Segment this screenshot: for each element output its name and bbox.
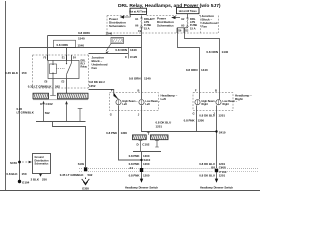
svg-text:C102: C102 [46,102,54,106]
wire DK BLU 1201 right low beam down [216,111,218,169]
headlamp right dashed box [193,93,233,111]
svg-text:592: 592 [88,173,93,177]
relay coil [50,64,57,74]
svg-text:15 A: 15 A [190,26,196,30]
wire coil ground LT GRN/BLK 592 [52,79,54,96]
wire PNK 1200 right headlamp G down [196,111,198,132]
svg-text:Fan: Fan [202,24,208,28]
wire label 0.8 PNK 1300 (lower) [129,154,150,158]
arrow to headlamp dimmer switch (right) [215,172,218,183]
ground distribution box [33,154,51,174]
headlamp right label [235,93,252,101]
svg-text:150: 150 [22,172,27,176]
wire label 0.8 DK BLU 1252 [89,80,105,88]
wire bus to ground G305 elbow [53,122,86,168]
junction block label (top right) [202,14,218,29]
svg-text:1540: 1540 [78,43,85,47]
splice S410 (left) [140,159,142,161]
callout tag box [106,38,124,54]
svg-text:G: G [193,112,195,116]
power distribution cross-ref note [109,17,126,28]
svg-text:G305: G305 [82,186,89,190]
svg-text:0.8 DK BLU: 0.8 DK BLU [199,113,215,117]
svg-text:0.8 PNK: 0.8 PNK [106,131,118,135]
wire relay pin E3 stub [66,79,68,94]
svg-text:S410: S410 [219,130,226,134]
C102 merge bar [133,151,161,153]
svg-text:2 BLK: 2 BLK [31,177,40,181]
high beam left bulb [114,93,138,111]
svg-text:250: 250 [42,177,47,181]
svg-text:0.8 DK BLU: 0.8 DK BLU [199,173,215,177]
connector C102 row [133,132,169,140]
svg-text:0.8 ORN: 0.8 ORN [115,48,127,52]
wire label 0.8 ORN 1340 with C120 [115,48,137,59]
wire vertical left BLK 150 [19,48,21,182]
wire label 0.8 ORN 1540 (upper) [78,31,113,41]
svg-text:Schematics: Schematics [35,162,50,165]
svg-text:0.8 ORN: 0.8 ORN [129,77,141,81]
wire DK BLU 1252 to left headlamp [89,90,114,93]
relay K1 DRL [48,60,79,78]
relay switch [66,61,68,64]
junction block label JB2 [92,55,108,70]
svg-text:1440: 1440 [222,50,229,54]
fuse F2 LPS 15A [177,14,197,33]
headlamp left label [161,93,178,101]
relay top pin ticks [48,55,72,61]
hot at all times box B2 [177,8,200,14]
svg-text:592: 592 [45,111,50,115]
svg-text:Schematics: Schematics [157,24,174,28]
inline connector blob on ground wire [84,167,87,171]
svg-text:Relay: Relay [81,66,88,69]
low beam left bulb [139,93,161,111]
fuse F1 DRL&FT LPS 15A [131,14,156,30]
svg-text:0.8 PNK: 0.8 PNK [129,173,141,177]
svg-text:Headlamp Dimmer Switch: Headlamp Dimmer Switch [200,186,233,190]
connector label 8 C102 [40,102,53,106]
svg-text:0.8 ORN: 0.8 ORN [206,50,218,54]
svg-text:1201: 1201 [219,173,226,177]
splice S150 [18,161,21,164]
wire segment H2 y=47.5 [20,47,142,49]
up arrow wire under right hatched box [65,101,68,122]
svg-text:C102: C102 [142,143,150,147]
svg-text:Left: Left [145,103,150,106]
svg-text:0.35 LT GRN/BLK: 0.35 LT GRN/BLK [60,173,85,177]
wire label 0.8 PNK 1200 [129,173,150,177]
wire label 0.8 DK BLU 1251 [156,120,172,128]
svg-text:1540: 1540 [78,36,85,40]
wire label 0.8 ORN 1440 (right inner) [186,68,208,72]
junction block underhood dashed box JB2 (relay) [33,55,89,88]
wire label 0.8 DK BLU 1201 (upper) [199,113,225,117]
svg-text:1200: 1200 [143,162,150,166]
svg-text:0.8 ORN: 0.8 ORN [57,43,68,47]
connector gap stub [147,132,150,135]
svg-text:B8: B8 [211,166,215,170]
low beam right bulb [216,93,238,111]
pigtail symbol right [78,109,83,122]
svg-text:Right: Right [223,103,230,106]
svg-text:0.8 PNK: 0.8 PNK [184,119,196,123]
arrow to power distribution 2 [172,16,180,18]
headlamp left pin labels [110,89,140,117]
connector label D C102 [137,143,150,147]
relay name label [81,60,88,69]
svg-text:1251: 1251 [156,124,163,128]
high beam right bulb [195,93,217,111]
wire label 0.8 ORN 1340 (to left low beam) [129,77,151,81]
connector row bottom line [33,99,88,101]
C102 pin bars [139,140,159,152]
wire segment H1 y=35.5 [48,35,142,37]
connector row hatched box (right) [58,93,89,99]
svg-text:G: G [110,112,112,116]
dotted rail right [221,168,258,171]
wire label 0.8 PNK 1200 (mid) [129,162,150,166]
svg-text:15 A: 15 A [144,26,150,30]
arrow to headlamp dimmer switch (left) [140,172,143,183]
svg-text:B: B [138,89,140,93]
svg-text:Right: Right [202,103,209,106]
wire label 0.8 BLK 150 [6,172,27,176]
svg-text:Hot at All Times: Hot at All Times [129,11,148,14]
wire vertical to relay coil pin [47,36,49,61]
ground symbol G305 [82,178,90,185]
svg-text:0.8 BLK: 0.8 BLK [6,172,18,176]
relay pin labels [44,56,77,83]
wire ORN 1540 fuse F1 to relay (H1 horizontal) [141,27,143,93]
wire label 0.8 DK BLU 1201 (bottom) [199,173,225,177]
svg-text:Left: Left [161,97,167,101]
connector row hatched box (left) [33,93,49,99]
ground bus line [36,121,86,123]
headlamp right pin labels [193,88,218,115]
hot at all times box B1 [129,8,148,14]
svg-text:B: B [215,88,217,92]
dotted pass-through rail left-mid [79,168,139,171]
up arrow under left hatched box [42,101,45,122]
junction block underhood dashed box (top) [107,16,219,34]
wire label 0.8 PNK 1200 (right G) [184,119,205,123]
svg-text:Fan: Fan [92,66,98,70]
svg-text:0.8 ORN: 0.8 ORN [186,68,198,72]
svg-text:1340: 1340 [130,48,137,52]
svg-text:Left: Left [122,103,127,106]
wire label 0.35 BLK 150 [5,71,27,75]
svg-text:592: 592 [55,85,60,89]
wire PNK 1300 below C102 [141,152,143,169]
frame border left [5,1,7,190]
svg-text:LT GRN/BLK: LT GRN/BLK [17,111,35,115]
svg-text:Headlamp Dimmer Switch: Headlamp Dimmer Switch [125,186,158,190]
relay actuation dotted line [57,68,65,70]
svg-text:1540: 1540 [106,32,113,36]
wire DK BLU 1251 left low beam to S410 [142,111,217,132]
arrow to power distribution [121,16,131,18]
headlamp left dashed box [109,93,158,111]
ground G104 dot [18,180,21,183]
wire label 0.35 LT GRN/BLK 592 (upper) [28,85,60,89]
svg-text:1340: 1340 [144,77,151,81]
wire PNK 1300 left headlamp G down [119,111,142,161]
wire ORN 1440 low beam right [185,28,220,93]
wire label box 0.8 ORN 1540 (lower) [54,40,85,47]
dashed arrow to ground distribution [22,161,32,164]
svg-text:C408: C408 [219,166,226,170]
svg-text:C120: C120 [130,55,138,59]
wire ORN 1340 from relay to C120 [89,53,129,55]
inline connector blob on DK BLU wire [215,169,218,173]
wire label 0.8 DK BLU 1201 / C408 [199,162,226,170]
svg-text:0.35 BLK: 0.35 BLK [5,71,19,75]
svg-text:Hot at All Times: Hot at All Times [179,10,198,13]
JB1 bottom pin tick labels [138,30,189,33]
svg-text:0.8 ORN: 0.8 ORN [78,31,90,35]
svg-text:1252: 1252 [89,84,96,88]
svg-text:G104: G104 [22,180,30,184]
inline connector blob on PNK wire [140,168,143,172]
wire 2 BLK 250 from ground distribution [39,174,42,177]
svg-text:1200: 1200 [143,173,150,177]
svg-text:A4: A4 [129,166,133,170]
wire label 0.8 PNK 1300 (upper) [106,131,127,135]
wire ORN 1440 high beam right [178,28,200,93]
fuse F2 output wires to right headlamp [178,28,220,93]
svg-text:150: 150 [22,71,27,75]
power distribution cross-ref note 2 [157,17,174,28]
svg-text:0.35 LT GRN/BLK: 0.35 LT GRN/BLK [28,85,53,89]
svg-text:S109: S109 [78,162,85,166]
svg-text:Schematics: Schematics [109,24,126,28]
svg-text:S150: S150 [10,161,17,165]
dotted rail mid [144,168,214,171]
svg-text:1300: 1300 [121,131,128,135]
wire label 0.8 ORN 1440 (right outer) [206,50,228,54]
splice S410 dot (right) [215,130,217,132]
frame border bottom [0,190,260,192]
svg-text:1440: 1440 [201,68,208,72]
wire label 0.35 LT GRN/BLK 592 (bottom) [60,173,93,177]
svg-text:1200: 1200 [198,119,205,123]
wire vertical to relay switch pin [66,48,68,61]
svg-text:0.8 PNK: 0.8 PNK [129,154,141,158]
wire label 0.35 LT GRN/BLK 592 (lower) [17,107,51,115]
svg-text:1201: 1201 [219,113,226,117]
